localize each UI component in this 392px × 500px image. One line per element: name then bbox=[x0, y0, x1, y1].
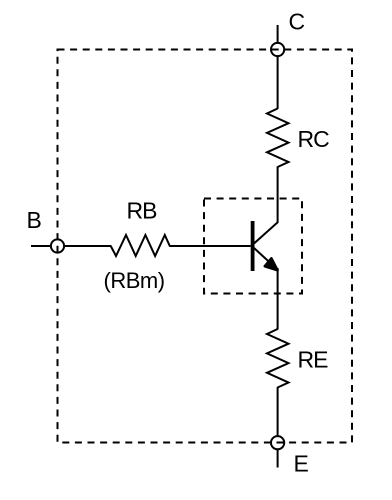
svg-text:RE: RE bbox=[298, 347, 329, 373]
wire RC to collector bbox=[277, 167, 279, 223]
node C bbox=[271, 43, 284, 56]
transistor Q1 emitter arrow bbox=[265, 258, 278, 270]
transistor Q1 emitter lead bbox=[254, 248, 272, 265]
svg-text:RB: RB bbox=[127, 198, 158, 224]
wire emitter to RE bbox=[277, 268, 279, 330]
terminal stub E bbox=[277, 449, 279, 468]
svg-text:(RBm): (RBm) bbox=[104, 268, 165, 293]
svg-text:B: B bbox=[27, 207, 42, 233]
svg-text:C: C bbox=[289, 9, 306, 35]
wire C to RC bbox=[277, 56, 279, 109]
terminal stub B bbox=[31, 245, 51, 247]
node B bbox=[51, 239, 64, 252]
wire RE to E bbox=[277, 387, 279, 437]
svg-text:E: E bbox=[294, 451, 309, 477]
terminal stub C bbox=[277, 25, 279, 43]
svg-text:RC: RC bbox=[298, 126, 330, 152]
outer dashed box bbox=[58, 50, 353, 443]
node E bbox=[271, 436, 284, 449]
resistor RC bbox=[267, 109, 289, 168]
resistor RB bbox=[111, 235, 170, 256]
wire B to RB bbox=[64, 245, 112, 247]
transistor Q1 base bar bbox=[251, 221, 255, 271]
wire RB to base bbox=[170, 245, 251, 247]
transistor Q1 collector lead bbox=[254, 222, 278, 244]
resistor RE bbox=[267, 329, 289, 388]
inner dashed box (transistor) bbox=[204, 199, 302, 294]
